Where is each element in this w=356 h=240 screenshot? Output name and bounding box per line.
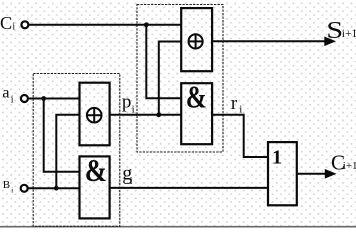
label ri (231, 93, 242, 116)
svg-text:p: p (122, 92, 131, 113)
label Si+1 (326, 17, 356, 45)
wire pi up to XOR U1 input (159, 42, 182, 115)
arrow S output (324, 37, 336, 47)
wire Bi horizontal (28, 187, 80, 189)
label ai (2, 84, 13, 105)
and gate U2 box (181, 83, 212, 144)
svg-text:&: & (186, 80, 207, 115)
input terminal Bi (21, 185, 28, 192)
svg-text:i: i (11, 186, 13, 194)
and gate U4 box (80, 156, 110, 218)
svg-text:S: S (326, 17, 343, 45)
wire pi from XOR U3 to AND U2 (110, 114, 182, 116)
svg-text:B: B (3, 179, 10, 191)
svg-text:i: i (130, 176, 133, 187)
label Ci (0, 13, 15, 33)
and symbol U4 (85, 154, 107, 188)
node junction on Bi wire (54, 186, 59, 191)
wire S output (212, 40, 327, 42)
svg-text:a: a (2, 84, 9, 101)
xor symbol U3 (87, 108, 102, 123)
svg-text:i: i (239, 104, 242, 116)
wire Ci branch down to AND U2 input (146, 25, 181, 99)
label Bi (3, 179, 13, 194)
or gate U5 box (268, 142, 297, 205)
and symbol U2 (186, 80, 207, 115)
svg-text:i+1: i+1 (343, 160, 356, 172)
svg-text:i+1: i+1 (342, 28, 356, 40)
label gi (122, 163, 133, 188)
wire Ci+1 output (297, 173, 328, 175)
label pi (122, 92, 135, 116)
node junction on Ci wire (144, 22, 149, 27)
xor symbol U1 (189, 34, 203, 48)
svg-text:1: 1 (272, 147, 282, 169)
svg-text:&: & (85, 154, 107, 188)
input terminal Ci (21, 21, 28, 28)
wire ai horizontal (29, 98, 80, 100)
svg-text:i: i (12, 22, 15, 33)
node junction on pi wire (156, 112, 161, 117)
input terminal ai (21, 95, 28, 102)
wire Bi branch up to XOR U3 input (56, 115, 80, 188)
label Ci+1 (331, 150, 356, 174)
wire ai branch down to AND U4 input (44, 99, 80, 172)
wire ri from AND U2 to OR U5 (212, 115, 269, 157)
lower group box (dashed) (33, 74, 120, 227)
wire Ci horizontal (29, 24, 182, 26)
wire gi from AND U4 to OR U5 (110, 187, 269, 189)
arrow Ci+1 output (325, 169, 337, 179)
upper group box (dashed) (137, 5, 223, 153)
node junction on ai wire (41, 96, 46, 101)
xor gate U3 box (80, 83, 110, 146)
svg-text:r: r (231, 93, 238, 114)
svg-text:i: i (11, 95, 14, 106)
svg-text:i: i (132, 103, 135, 115)
xor gate U1 box (181, 8, 212, 71)
bottom edge dashed line (0, 226, 356, 228)
svg-text:C: C (0, 13, 12, 33)
